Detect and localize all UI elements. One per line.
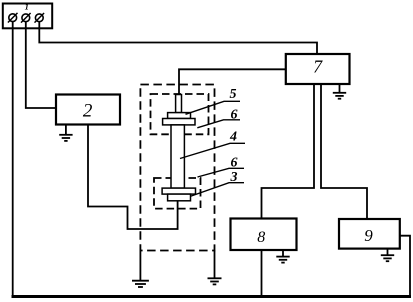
block 7 bbox=[286, 54, 350, 84]
svg-text:4: 4 bbox=[229, 130, 237, 145]
ground below block 8 bbox=[276, 250, 289, 263]
wire from upper electrode stem to block 7 left bbox=[179, 69, 286, 94]
terminal T3 (circle with slash) bbox=[35, 13, 45, 23]
label 6 upper with leader bbox=[197, 108, 240, 128]
ground at shield left bbox=[132, 251, 149, 288]
svg-text:1: 1 bbox=[25, 1, 29, 11]
svg-text:7: 7 bbox=[313, 56, 323, 76]
specimen 4 bbox=[171, 125, 184, 188]
block 9 bbox=[339, 219, 400, 249]
shield: outer dashed box bbox=[140, 85, 214, 251]
svg-text:8: 8 bbox=[257, 229, 265, 246]
upper electrode stem (5 assembly) bbox=[176, 95, 182, 113]
ground below block 7 bbox=[333, 84, 346, 99]
wire bottom bus bbox=[12, 295, 412, 298]
wire from T2 to block 2 bbox=[26, 22, 56, 108]
wire right bus up to block 9 bbox=[400, 236, 411, 297]
svg-text:2: 2 bbox=[83, 101, 93, 122]
wire block 7 to block 9 bbox=[321, 84, 367, 219]
guard box upper (inner dashed) bbox=[151, 94, 209, 134]
lower plate 6 bbox=[162, 188, 195, 194]
terminal T1 (circle with slash) bbox=[8, 13, 18, 23]
block 8 bbox=[231, 219, 297, 251]
label 4 with leader bbox=[180, 130, 245, 159]
guard box lower (inner dashed) bbox=[154, 178, 201, 209]
ground below block 2 bbox=[59, 125, 72, 141]
svg-text:5: 5 bbox=[230, 87, 237, 102]
label 5 with leader bbox=[186, 87, 241, 115]
label 6 lower with leader bbox=[198, 156, 245, 178]
upper electrode plate 5 bbox=[168, 113, 191, 119]
wire from T3 to block 7 top bbox=[39, 22, 317, 55]
ground at shield right bbox=[208, 251, 222, 285]
label 3 with leader bbox=[190, 170, 244, 196]
guard electrode plate 6 (upper) bbox=[163, 119, 195, 125]
wire from T1 down left side to bottom bus bbox=[12, 22, 14, 297]
ground below block 9 bbox=[381, 249, 394, 262]
lower electrode 3 bbox=[168, 194, 191, 201]
wire block 7 to block 8 bbox=[262, 84, 315, 219]
wire from block 2 bottom to lower electrode bbox=[88, 125, 178, 230]
block 2 bbox=[56, 95, 120, 125]
svg-text:9: 9 bbox=[364, 226, 373, 245]
wire block 8 to bottom bus bbox=[261, 250, 263, 297]
terminal box 1 bbox=[3, 4, 52, 29]
terminal T2 (circle with slash) bbox=[21, 13, 31, 23]
